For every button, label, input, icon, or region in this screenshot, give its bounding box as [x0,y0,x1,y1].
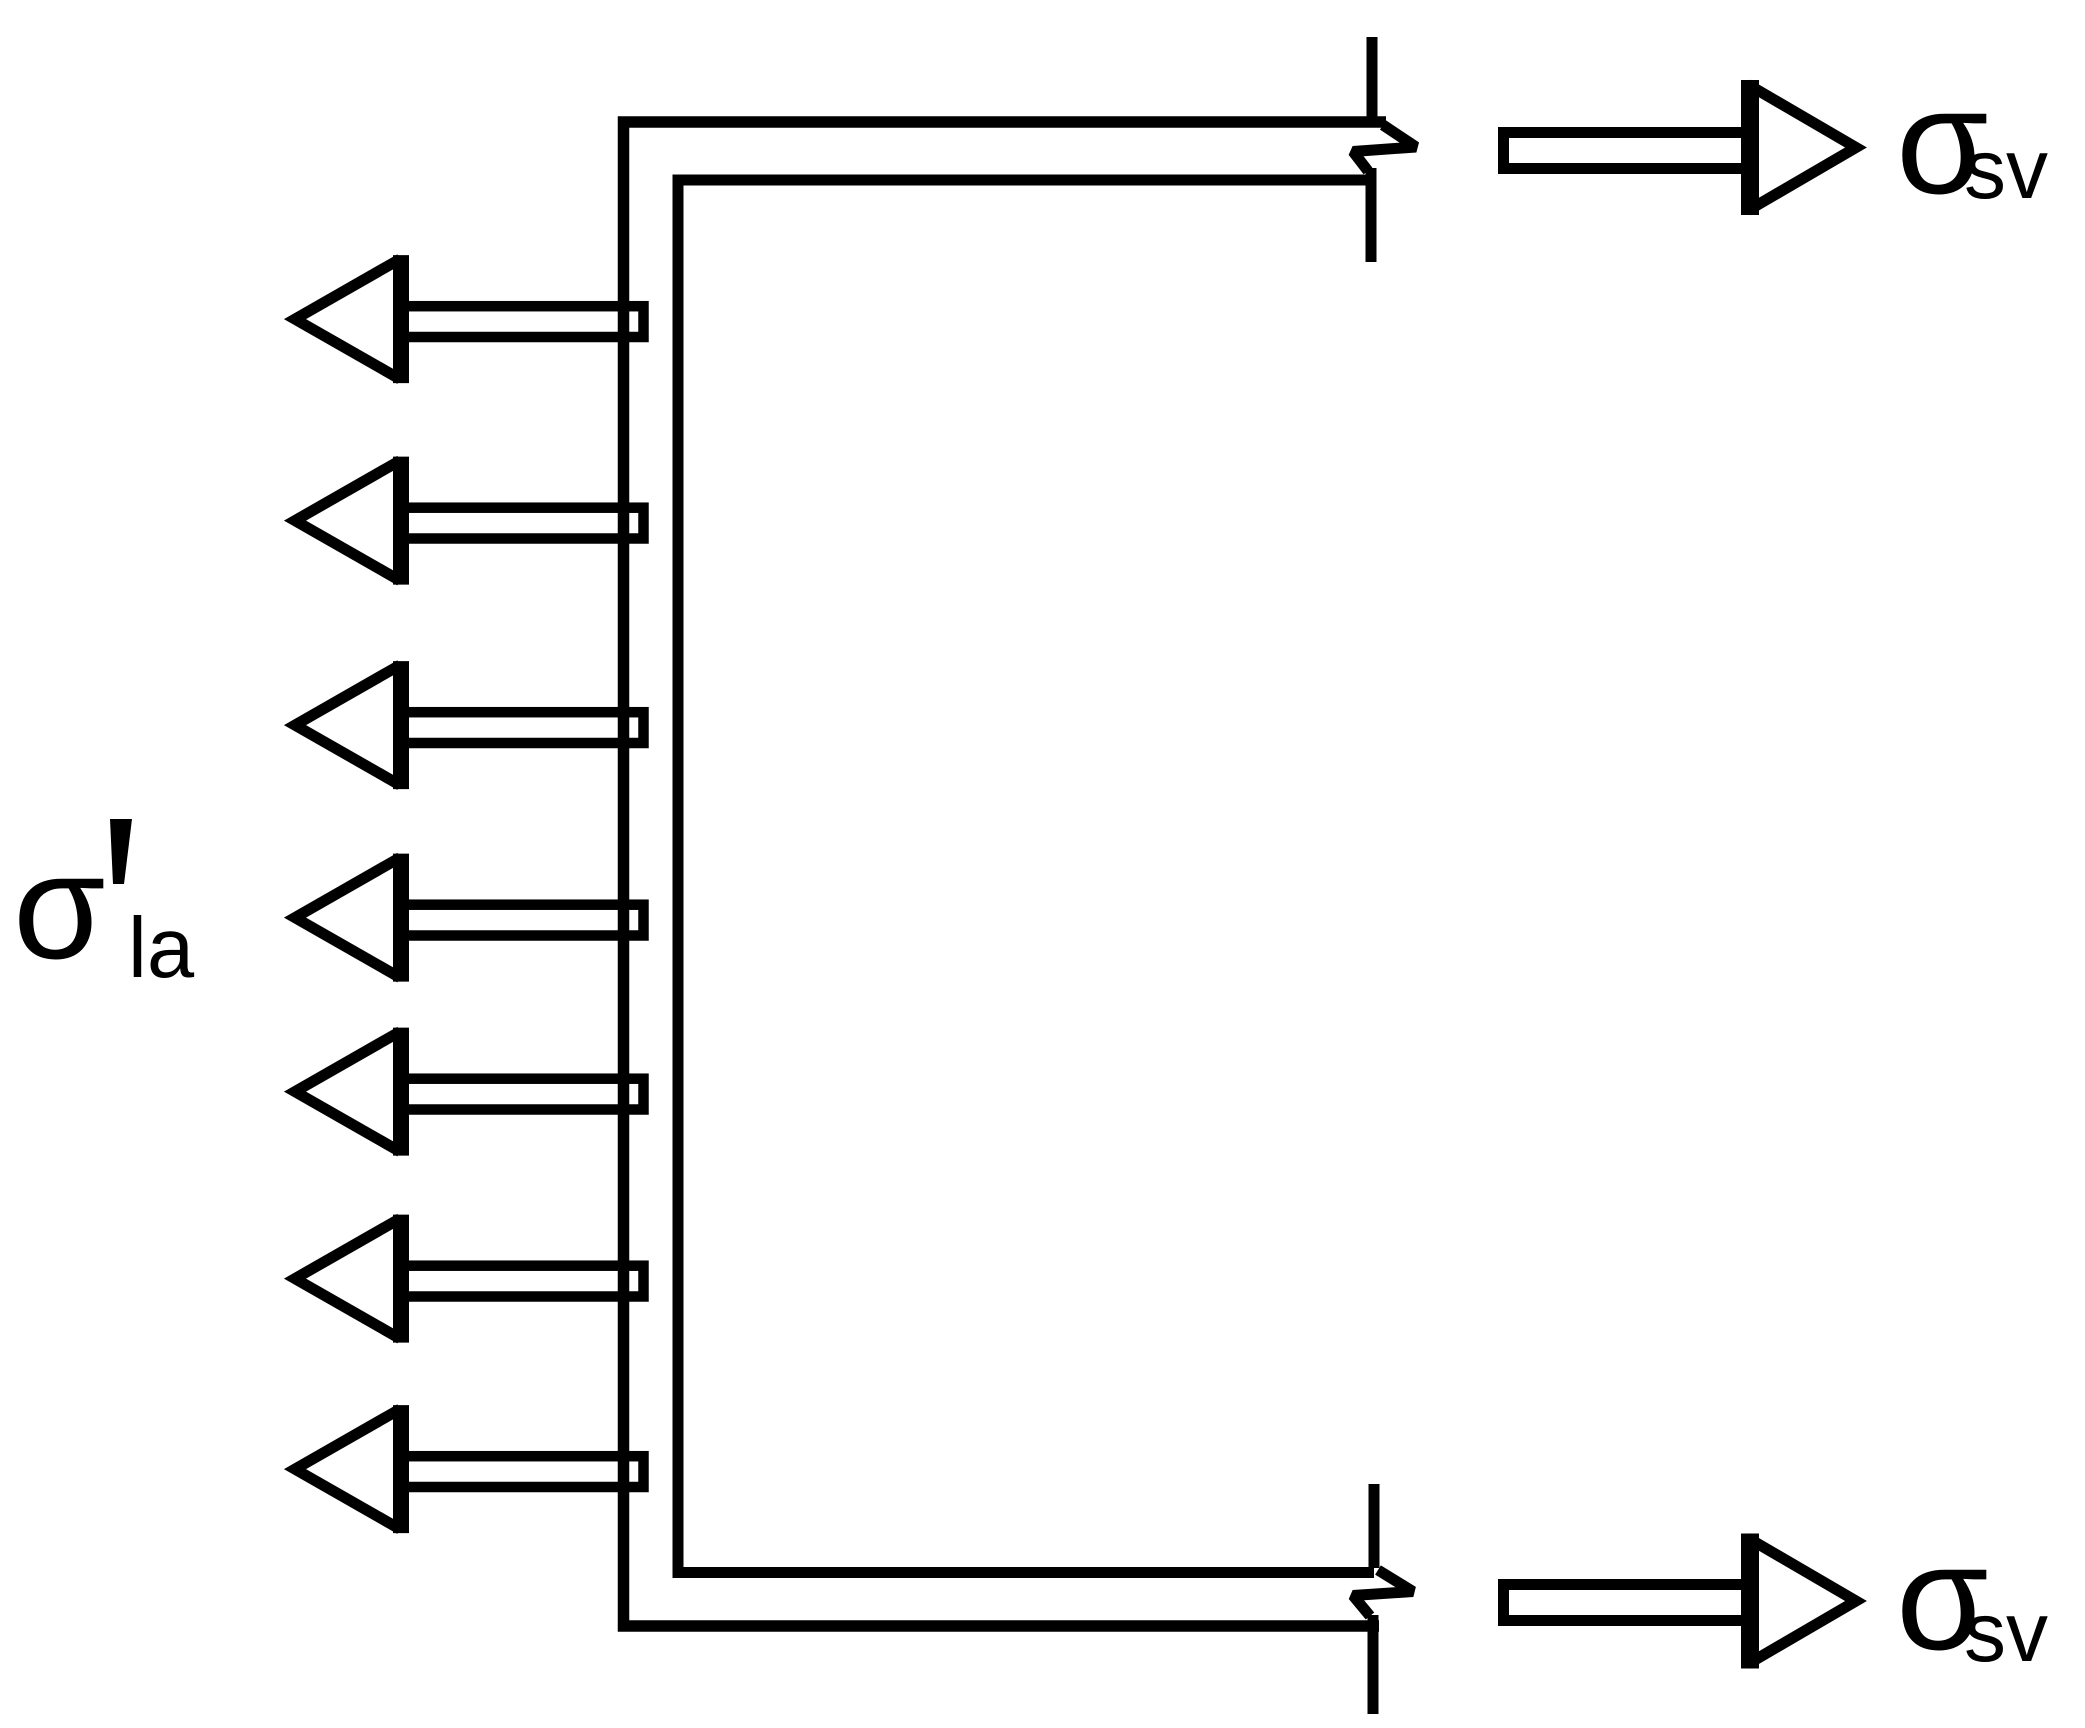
label sigma-sv bottom [1896,1513,2048,1681]
arrow shaft 7 [399,1456,644,1487]
arrow shaft 3 [399,712,644,743]
arrowhead 3 [295,661,401,789]
wall inner line [678,180,1374,1573]
arrowhead 1 [295,255,401,383]
arrowhead 5 [295,1028,401,1156]
svg-text:la: la [128,901,195,996]
arrow shaft 5 [399,1079,644,1110]
arrow shaft 4 [399,905,644,936]
bottom right stress arrow [1504,1534,1857,1669]
bottom break line [1353,1484,1413,1714]
arrowhead 2 [295,457,401,585]
arrowhead 4 [295,854,401,982]
arrow shaft 1 [399,306,644,337]
svg-text:sv: sv [1964,122,2048,216]
svg-text:sv: sv [1964,1585,2048,1679]
arrow shaft 2 [399,508,644,539]
wall outer line [624,122,1387,1626]
arrowhead 7 [295,1405,401,1533]
arrow shaft 6 [399,1266,644,1297]
label sigma-prime-la left [13,819,195,996]
top right stress arrow [1504,80,1857,215]
top break line [1353,37,1416,262]
svg-text:σ: σ [13,822,106,990]
label sigma-sv top [1896,57,2048,225]
arrowhead 6 [295,1215,401,1343]
